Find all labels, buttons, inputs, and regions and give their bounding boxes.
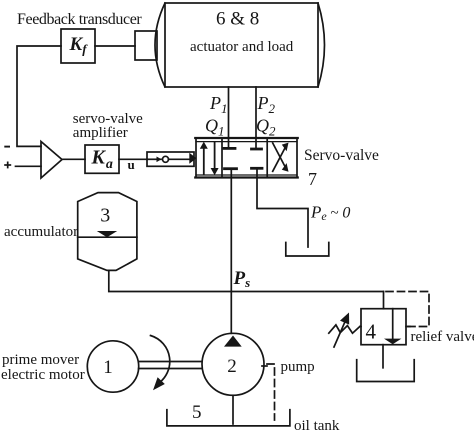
svg-text:prime mover: prime mover — [2, 352, 79, 368]
svg-text:Ka: Ka — [91, 147, 113, 173]
svg-text:Q1: Q1 — [205, 116, 225, 139]
svg-text:3: 3 — [100, 205, 110, 227]
svg-text:u: u — [128, 157, 135, 172]
svg-text:relief valve: relief valve — [411, 329, 474, 345]
svg-text:actuator and load: actuator and load — [190, 39, 294, 55]
svg-text:Ps: Ps — [233, 268, 251, 290]
svg-text:Feedback transducer: Feedback transducer — [17, 11, 142, 28]
svg-text:oil tank: oil tank — [294, 418, 340, 431]
svg-text:Kf: Kf — [69, 34, 89, 57]
svg-text:4: 4 — [366, 320, 377, 344]
svg-text:P2: P2 — [257, 93, 276, 116]
svg-text:2: 2 — [227, 356, 237, 377]
svg-text:pump: pump — [281, 359, 315, 375]
svg-text:Servo-valve: Servo-valve — [304, 147, 379, 164]
svg-text:P1: P1 — [209, 93, 228, 116]
svg-text:5: 5 — [192, 402, 202, 423]
svg-text:accumulator: accumulator — [4, 224, 78, 240]
svg-text:6 & 8: 6 & 8 — [216, 9, 259, 30]
svg-text:7: 7 — [308, 169, 317, 189]
svg-text:electric motor: electric motor — [1, 367, 85, 383]
svg-text:amplifier: amplifier — [73, 125, 128, 141]
svg-text:Pe ~ 0: Pe ~ 0 — [310, 203, 350, 224]
svg-text:1: 1 — [103, 357, 113, 378]
svg-text:Q2: Q2 — [256, 116, 276, 139]
